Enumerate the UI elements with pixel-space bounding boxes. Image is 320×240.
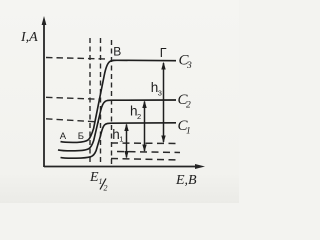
svg-text:Б: Б (78, 131, 84, 142)
svg-text:2: 2 (186, 100, 191, 110)
svg-text:3: 3 (186, 61, 192, 71)
svg-text:3: 3 (158, 88, 162, 97)
arrow h2 (wave height of C2) (142, 100, 146, 152)
curve C2 (middle concentration) (58, 100, 176, 151)
curve label C1 (178, 118, 191, 137)
label h2 (130, 104, 141, 121)
dashed level line at C1 plateau (46, 119, 99, 122)
curve label C2 (178, 92, 192, 111)
svg-text:E,B: E,B (175, 173, 197, 188)
curve C1 (lowest concentration) (61, 123, 177, 158)
svg-text:E: E (89, 170, 99, 185)
dashed vertical line 2 (half-wave potential) (100, 38, 102, 165)
curve C3 (polarographic wave, highest concentration) (61, 60, 177, 142)
curve label C3 (179, 53, 193, 72)
arrow h3 (wave height of C3) (161, 62, 165, 143)
svg-text:В: В (113, 45, 121, 59)
svg-text:А: А (60, 131, 67, 142)
svg-text:2: 2 (104, 184, 108, 193)
baseline extension of curve 3 (dashed) (111, 142, 179, 145)
svg-text:1: 1 (186, 127, 191, 137)
x-axis (potential axis) (44, 164, 205, 169)
svg-text:Г: Г (160, 46, 167, 60)
svg-text:1: 1 (119, 135, 123, 144)
svg-text:I,A: I,A (20, 30, 38, 45)
label h3 (151, 80, 162, 97)
dashed level line at C3 plateau (46, 58, 108, 60)
dashed vertical line 1 (wave start) (89, 38, 91, 165)
arrow h1 (wave height of C1) (124, 123, 128, 158)
svg-text:1: 1 (99, 177, 103, 186)
y-axis (current axis) (42, 16, 47, 167)
label h1 (112, 127, 123, 144)
baseline extension of curve 2 (dashed) (117, 152, 180, 153)
dashed level line at C2 plateau (46, 97, 100, 99)
label E 1/2 (89, 170, 108, 193)
dashed vertical line 3 (wave top) (111, 40, 113, 165)
svg-text:2: 2 (137, 112, 141, 121)
baseline extension of curve 1 (dashed) (111, 159, 180, 161)
